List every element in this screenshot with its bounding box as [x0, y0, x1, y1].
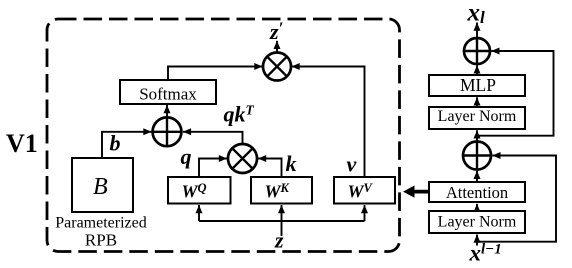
svg-text:Attention: Attention [446, 183, 508, 202]
wire residual from x l-1 [477, 156, 556, 242]
svg-text:Parameterized: Parameterized [55, 215, 147, 232]
box Attention [429, 182, 525, 202]
svg-text:RPB: RPB [85, 231, 117, 250]
box Layer Norm top [429, 107, 525, 129]
wire b (B to add node) [102, 132, 152, 158]
thick arrow Attention to WV [403, 186, 429, 198]
box WQ [168, 177, 231, 204]
label Parameterized RPB [55, 215, 147, 250]
wire Layer Norm to Attention [476, 204, 478, 211]
add node residual 1 [463, 142, 491, 170]
wire Attention to add node 1 [476, 171, 478, 182]
svg-text:xl: xl [467, 0, 486, 27]
wire add 2 to x l [476, 23, 478, 39]
wire z bus horizontal [199, 220, 365, 222]
wire Softmax to multiply node [168, 67, 263, 81]
multiply node qk [228, 144, 257, 173]
svg-text:Layer Norm: Layer Norm [438, 108, 517, 125]
svg-text:Layer Norm: Layer Norm [438, 214, 517, 231]
svg-text:v: v [347, 152, 357, 177]
V1 block dashed border [47, 19, 400, 252]
box Softmax [120, 80, 216, 104]
svg-text:q: q [181, 144, 192, 169]
wire multiply to z' [276, 41, 278, 53]
svg-text:z′: z′ [269, 19, 283, 45]
box B [72, 158, 133, 212]
svg-text:B: B [93, 174, 108, 200]
wire z vertical to WK [281, 205, 283, 236]
box WV [334, 177, 395, 204]
svg-text:Softmax: Softmax [139, 85, 197, 104]
wire bus to WQ [198, 205, 200, 221]
svg-text:xl−1: xl−1 [469, 241, 502, 266]
svg-text:MLP: MLP [460, 75, 496, 95]
wire bus to WV [364, 205, 366, 221]
wire add to Softmax [166, 105, 168, 117]
svg-text:qkT: qkT [224, 102, 255, 127]
add node (b + qkT) [153, 117, 182, 146]
svg-text:V1: V1 [6, 129, 38, 158]
wire MLP to add node 2 [476, 65, 478, 74]
box MLP [429, 75, 525, 96]
svg-text:z: z [274, 228, 284, 253]
wire add 1 to Layer Norm top [476, 130, 478, 141]
wire Layer Norm to MLP [476, 97, 478, 107]
box Layer Norm bottom [429, 211, 525, 233]
wire qkT (multiply qk to add node) [183, 132, 243, 144]
box WK [251, 177, 312, 204]
wire q (WQ to multiply qk) [199, 159, 227, 178]
svg-text:b: b [110, 131, 121, 156]
add node output [464, 38, 490, 64]
wire input x l-1 to Layer Norm [476, 235, 478, 246]
wire v (WV to multiply node) [292, 67, 365, 178]
wire residual 2 [477, 51, 554, 136]
multiply node (attention x v) [263, 53, 291, 81]
wire k (WK to multiply qk) [258, 159, 282, 178]
svg-text:k: k [286, 151, 297, 176]
